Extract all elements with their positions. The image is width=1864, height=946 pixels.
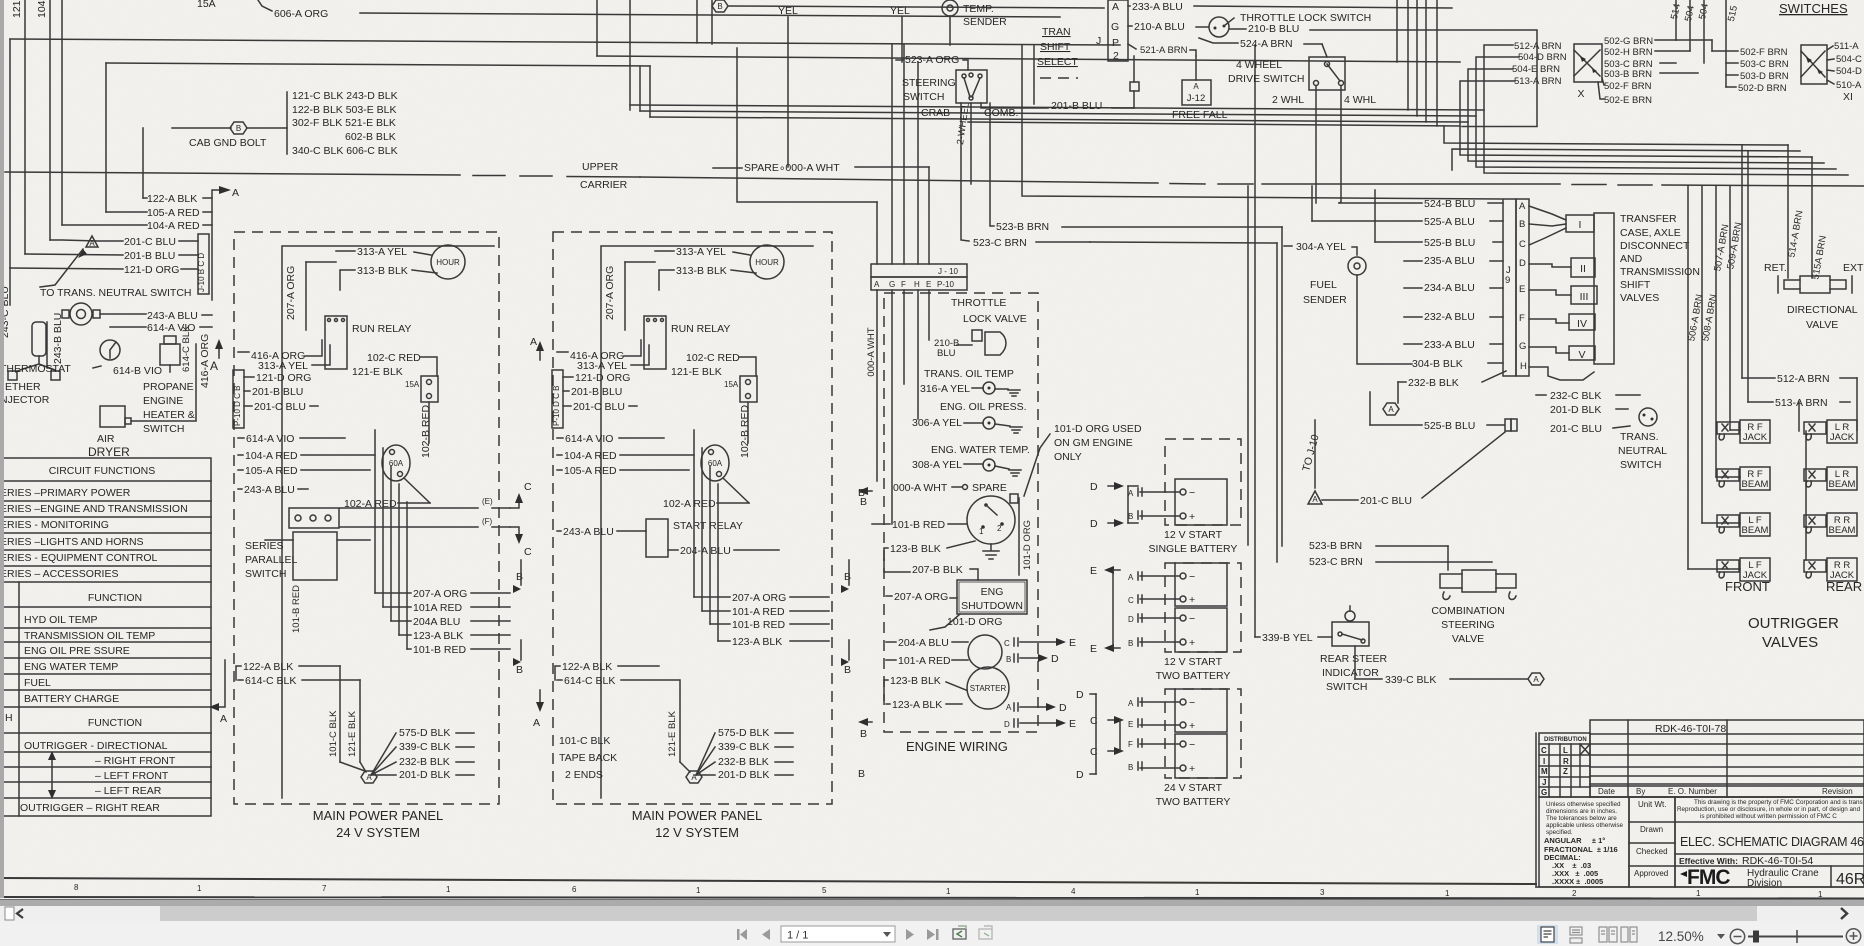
ground hex A fan <box>361 771 377 783</box>
ground bolt hex B <box>230 122 247 134</box>
connector J9 <box>1503 199 1516 376</box>
wire 123-B BLK starter <box>884 680 888 700</box>
distribution table <box>1539 733 1590 797</box>
alternator <box>968 635 1002 669</box>
right info block <box>1675 797 1864 887</box>
wire 121-D ORG <box>244 376 254 378</box>
wire 104-A RED <box>238 454 243 456</box>
hour meter <box>431 245 465 279</box>
schematic outer border <box>0 897 1864 899</box>
wire 201-C BLU <box>563 405 571 407</box>
panel inner solid border <box>282 246 494 798</box>
bottom label list <box>375 592 411 594</box>
XI feed verticals <box>1675 0 1677 40</box>
ground label fan 575-D BLK etc <box>696 733 715 775</box>
wire to cab gnd bolt <box>172 127 231 129</box>
wire bundle y110 <box>640 57 1519 116</box>
wire vertical x597 <box>596 0 598 56</box>
outrigger valve L F BEAM <box>1740 513 1770 536</box>
FMC logo <box>1680 871 1687 877</box>
wire 201-B BLU <box>244 390 250 392</box>
ground hex A <box>1528 673 1544 685</box>
wire vertical x50 <box>49 0 51 240</box>
wire 243-A BLU <box>238 488 242 490</box>
starter terminals <box>1014 638 1018 646</box>
wire to 243-A BLU <box>100 313 146 315</box>
wire 207-A ORG <box>886 595 892 597</box>
hour meter <box>750 245 784 279</box>
fuse 15A <box>740 376 757 402</box>
svg-text:12.50%: 12.50% <box>1658 929 1704 944</box>
wire bundle y122 <box>968 81 1515 126</box>
label TO TRANS NEUTRAL SWITCH <box>40 249 83 287</box>
triangle A to trans neutral switch <box>86 236 98 247</box>
vertical wire x902 <box>901 17 903 62</box>
wire vertical x363 <box>639 66 641 111</box>
battery box 24 V START <box>1165 689 1241 778</box>
battery box 12 V START <box>1165 563 1241 652</box>
vertical 523 wires down <box>1281 227 1283 546</box>
signature column <box>1629 797 1675 887</box>
diode bridge XI <box>1801 45 1827 84</box>
run relay <box>325 316 347 369</box>
wire 123-A BLK <box>886 703 890 705</box>
revision table <box>1590 720 1864 797</box>
wires from 4wd switch down <box>1315 86 1317 203</box>
circuit functions table frame <box>0 458 211 816</box>
wire 614-C BLK bottom <box>238 679 243 681</box>
wire vertical x25 <box>24 0 26 254</box>
wire 121-D ORG <box>563 376 573 378</box>
roman numeral valve boxes <box>1566 215 1594 232</box>
wire vertical x106 <box>105 63 107 212</box>
wires to battery arrows <box>1020 641 1060 643</box>
wire hexB to GP2 <box>728 6 1104 8</box>
wire 416-A ORG <box>557 351 568 353</box>
tolerance box <box>1539 797 1629 887</box>
wire 122-A BLK bottom <box>236 666 241 680</box>
wire 339-B YEL <box>1255 636 1260 638</box>
wire 523-C BRN bracket <box>961 103 969 241</box>
fuel sender <box>1348 257 1366 275</box>
wire 614-C BLK bottom <box>557 679 562 681</box>
wires into J-10 from top <box>876 202 878 264</box>
node A arrow left of 12V panel bottom <box>539 690 541 705</box>
combination steering valve <box>1462 570 1496 592</box>
breaker 60A <box>701 445 729 481</box>
outrigger valve L R JACK <box>1827 420 1857 443</box>
wire trunk y56 <box>597 56 1460 62</box>
wire 614-A VIO <box>557 437 563 439</box>
wires J-10 down into engine box <box>876 290 878 481</box>
wire label 614-A VIO <box>110 326 146 328</box>
connector J-10 <box>871 264 967 277</box>
node A arrow <box>212 190 219 300</box>
starter <box>967 667 1009 709</box>
wire bundle y105 <box>630 45 1513 110</box>
wire 523-B BRN top <box>990 103 994 226</box>
title block frame <box>1535 733 1537 887</box>
connector J GP2 <box>1108 0 1128 61</box>
outrigger connecting stubs <box>1730 429 1740 431</box>
panel 12V dashed box <box>553 232 832 804</box>
wire 122-A BLK bottom <box>555 666 560 680</box>
ground label fan 575-D BLK etc <box>371 733 396 775</box>
wire 105-A RED <box>238 469 243 471</box>
vertical wire from temp sender <box>949 16 951 45</box>
wire vertical x143 <box>142 128 144 198</box>
double arrow outrigger <box>51 757 53 794</box>
wire label 201-B BLU <box>25 254 123 255</box>
connector strip P-10 D C B <box>552 370 563 428</box>
wire 204-A BLU <box>886 641 896 643</box>
start relay <box>646 519 668 557</box>
wire 101-A RED <box>886 659 896 661</box>
wire trunk y40 <box>10 39 1120 45</box>
engine wiring dashed box <box>884 293 1038 732</box>
node A arrow left of 12V panel top <box>539 347 541 360</box>
fan wires J9 to I <box>1529 206 1566 245</box>
thermostat <box>100 340 120 360</box>
wire vertical x630 <box>629 0 631 110</box>
bracket line <box>286 92 288 154</box>
outrigger valve L F JACK <box>1740 558 1770 581</box>
temp sender circle <box>942 0 958 16</box>
breaker 60A <box>382 445 410 481</box>
svg-text:1 / 1: 1 / 1 <box>787 930 808 942</box>
wire 606-A ORG <box>360 13 1060 17</box>
propane heater <box>160 344 180 365</box>
wire label 104-A RED <box>62 224 147 226</box>
wire 123-B BLK <box>884 548 888 560</box>
node A arrow above strip <box>218 345 220 358</box>
connector J-10 B C D strip <box>198 234 209 294</box>
wire 614-A VIO <box>238 437 244 439</box>
wire 105-A RED <box>557 469 562 471</box>
outrigger valve L R BEAM <box>1827 467 1857 490</box>
node A arrow right of table <box>219 660 225 707</box>
steering switch <box>956 70 987 103</box>
wire vertical x62 <box>61 0 63 225</box>
wire bundle y116 <box>650 69 1513 122</box>
connector J-12 freefall <box>1182 80 1211 105</box>
wire 523-C BRN top <box>1090 242 1277 243</box>
ignition switch <box>967 496 1015 544</box>
ground hex A <box>1383 403 1399 415</box>
ground hex A fan <box>686 771 702 783</box>
wire 201-B BLU to comb <box>981 103 1048 108</box>
series parallel switch <box>289 508 339 528</box>
outrigger valve R F BEAM <box>1740 467 1770 490</box>
connector strip P-10 D C B <box>233 370 244 428</box>
ground hex B <box>712 0 728 12</box>
diode bridge X <box>1574 44 1602 82</box>
wire label 201-C BLU <box>50 240 123 241</box>
outrigger valve R F JACK <box>1740 420 1770 443</box>
wire 416-A ORG <box>238 351 249 353</box>
schematic inner border <box>0 878 1536 884</box>
ether injector <box>32 322 46 356</box>
wire stub top <box>258 0 272 11</box>
outrigger valve R R JACK <box>1827 558 1857 581</box>
wire 313-B BLK <box>659 270 674 290</box>
wire vertical x1034 <box>1033 46 1035 104</box>
upper carrier divider line <box>5 172 460 175</box>
long vertical x1248 <box>1247 186 1249 545</box>
dash stub <box>1040 77 1078 79</box>
wire trunk y63 <box>106 63 650 66</box>
wire vertical x697 <box>696 0 698 43</box>
wire 201-B BLU <box>563 390 569 392</box>
wire label 122-A BLK <box>143 197 147 199</box>
panel inner solid border <box>601 246 813 798</box>
wire 339-C BLK <box>1354 646 1356 679</box>
node B arrows left <box>858 487 868 495</box>
wire vertical x712 <box>711 0 713 44</box>
trans neutral switch <box>1639 408 1657 426</box>
wire 201-C BLU with triangle A <box>1308 491 1322 504</box>
fuse 15A <box>421 376 438 402</box>
wire fuel sender down <box>1357 275 1412 364</box>
throttle lock switch <box>1209 17 1229 37</box>
battery box 12 V START <box>1165 439 1241 525</box>
air dryer <box>100 406 125 427</box>
bottom label list <box>694 596 730 598</box>
wire 233-A BLU top <box>1128 5 1130 7</box>
wire corner to J-10 <box>737 48 877 202</box>
elbow cascade right <box>1444 126 1788 145</box>
wire 313-A YEL <box>336 250 355 252</box>
vertical wire x788 <box>787 17 789 167</box>
fuse on wire <box>1133 56 1135 82</box>
outrigger valve R R BEAM <box>1827 513 1857 536</box>
wire 201-C BLU <box>244 405 252 407</box>
panel 24V dashed box <box>234 232 499 804</box>
wire 207-B BLK <box>884 560 910 572</box>
long vertical x1255 <box>1254 45 1256 637</box>
wire vertical x10 <box>9 39 11 268</box>
wire label 121-D ORG <box>10 268 123 269</box>
wire 101-B RED <box>872 523 890 525</box>
wire label 105-A RED <box>106 211 147 213</box>
wire 313-B BLK <box>340 270 355 290</box>
wire to 524-B BLU <box>1022 45 1502 199</box>
pressure switch <box>70 303 92 325</box>
wire 313-A YEL <box>655 250 674 252</box>
outrigger feed verticals <box>1687 186 1689 569</box>
wires to C arrows <box>340 507 478 509</box>
verticals from top to cascade <box>1396 0 1398 62</box>
run relay <box>644 316 666 369</box>
rear steer indicator switch <box>1332 622 1369 646</box>
battery feed wires <box>1128 485 1138 487</box>
wire bolt to bracket <box>247 127 287 129</box>
wire 104-A RED <box>557 454 562 456</box>
eng shutdown box <box>957 580 1027 614</box>
